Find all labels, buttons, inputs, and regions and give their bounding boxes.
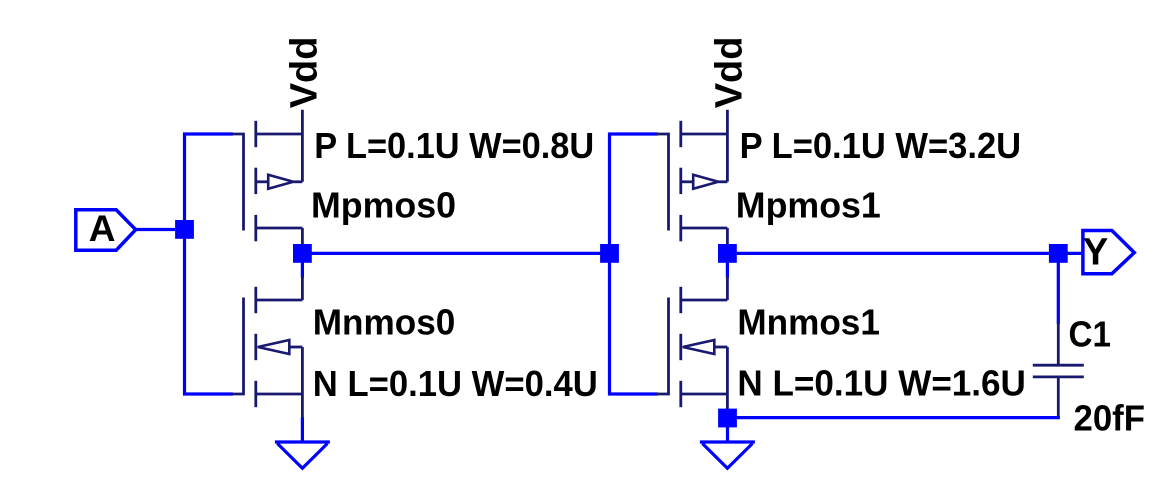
transistor Mnmos0 [231, 276, 302, 418]
node junction output inverter 2 [718, 244, 737, 263]
capacitor C1 [1033, 322, 1084, 417]
wire source junction to ground [726, 427, 729, 443]
svg-text:Y: Y [1083, 232, 1108, 274]
svg-text:Mnmos1: Mnmos1 [737, 302, 880, 343]
wire output to Mnmos0 drain [301, 262, 304, 278]
wire node Y to port Y [1058, 252, 1084, 255]
wire gate bus inverter 1 [185, 134, 234, 394]
svg-text:C1: C1 [1069, 313, 1112, 354]
svg-text:N L=0.1U W=0.4U: N L=0.1U W=0.4U [313, 363, 598, 404]
ground (inverter 1) [275, 442, 330, 468]
wire output inverter 2 to node Y [727, 252, 1058, 255]
svg-text:Mpmos1: Mpmos1 [736, 185, 881, 226]
svg-text:A: A [89, 208, 116, 249]
ground (inverter 2) [700, 442, 755, 468]
svg-text:N L=0.1U W=1.6U: N L=0.1U W=1.6U [737, 363, 1026, 404]
wire output inverter 1 to input inverter 2 [302, 252, 609, 255]
node junction input inverter 1 [175, 220, 194, 239]
svg-text:Vdd: Vdd [708, 37, 750, 109]
wire Mnmos0 source to ground [301, 418, 304, 444]
port Y [1083, 231, 1134, 274]
node junction input inverter 2 [600, 244, 619, 263]
svg-text:P L=0.1U W=3.2U: P L=0.1U W=3.2U [740, 125, 1022, 166]
wire output to Mnmos1 drain [726, 262, 729, 278]
port A [76, 210, 136, 250]
svg-text:20fF: 20fF [1074, 398, 1146, 439]
node junction output inverter 1 [293, 244, 312, 263]
node junction Mnmos1 source [718, 409, 737, 428]
transistor Mpmos1 [656, 110, 727, 245]
node junction Y [1049, 244, 1068, 263]
svg-text:Vdd: Vdd [283, 37, 325, 109]
svg-text:Mpmos0: Mpmos0 [311, 185, 456, 226]
transistor Mpmos0 [231, 110, 302, 245]
wire A to gate bus [136, 228, 178, 231]
wire node Y to capacitor C1 [1057, 262, 1060, 324]
transistor Mnmos1 [656, 276, 727, 409]
svg-text:P L=0.1U W=0.8U: P L=0.1U W=0.8U [314, 125, 594, 166]
wire gate bus inverter 2 [610, 134, 659, 394]
wire capacitor C1 to Mnmos1 source junction [728, 416, 1060, 419]
svg-text:Mnmos0: Mnmos0 [313, 302, 456, 343]
